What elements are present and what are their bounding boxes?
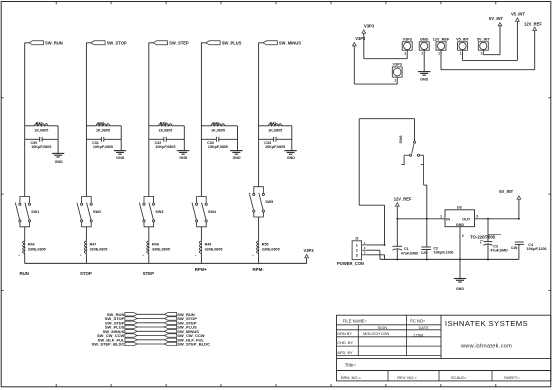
svg-text:10KpF,0805: 10KpF,0805 — [93, 145, 113, 149]
wire resistor to rail — [253, 254, 259, 264]
net label pair SW_HLF_FUL — [98, 337, 205, 342]
node STEP — [143, 271, 155, 276]
svg-text:R41: R41 — [270, 121, 277, 125]
power V3P3 top — [362, 24, 375, 34]
net label pair SW_MINUS — [103, 329, 200, 334]
connector J7 V3P3 lower — [392, 63, 402, 83]
svg-text:V3P3: V3P3 — [403, 38, 412, 42]
svg-text:PC NO=: PC NO= — [410, 318, 426, 323]
svg-text:STOP: STOP — [80, 271, 92, 276]
power 12V_REF top — [524, 22, 542, 31]
connector J1 POWER_CON — [337, 237, 367, 266]
svg-text:GND: GND — [456, 223, 465, 227]
svg-text:V3P3: V3P3 — [393, 63, 402, 67]
capacitor C4 10KpF,1206 — [515, 242, 547, 259]
svg-text:10KpF,0805: 10KpF,0805 — [31, 145, 51, 149]
wire GND pin — [423, 50, 425, 71]
svg-text:www.ishnatek.com: www.ishnatek.com — [460, 343, 512, 349]
connector J5 V5_INT — [456, 38, 470, 56]
svg-text:1: 1 — [460, 52, 462, 56]
capacitor C2 10KpF,1206 — [421, 219, 453, 260]
svg-text:V5_INT: V5_INT — [456, 38, 470, 42]
svg-text:5V_INT: 5V_INT — [499, 189, 513, 194]
svg-text:330E,0805: 330E,0805 — [262, 247, 280, 251]
svg-text:1K,0805: 1K,0805 — [34, 128, 48, 132]
svg-text:GND: GND — [233, 156, 241, 160]
capacitor C3 47uF,SMD — [480, 219, 518, 260]
wire J1 pin1 — [367, 244, 386, 246]
resistor R38 1K,0805 — [86, 121, 121, 132]
svg-text:IN: IN — [446, 217, 450, 221]
svg-text:1K,0805: 1K,0805 — [268, 128, 282, 132]
connector J6 5V_INT — [477, 38, 491, 56]
global label SW_RUN — [29, 40, 63, 45]
wire RC to GND — [291, 126, 293, 151]
wire SW6 to rail — [424, 185, 427, 219]
svg-text:3: 3 — [476, 214, 478, 218]
ground regulator — [454, 279, 466, 292]
svg-text:330E,0805: 330E,0805 — [152, 247, 170, 251]
title block — [337, 315, 551, 381]
connector J2 V3P3 — [402, 38, 412, 56]
svg-text:C2N: C2N — [421, 251, 428, 255]
svg-text:47uF,SMD: 47uF,SMD — [490, 248, 508, 252]
wire SW_RUN vertical — [25, 43, 29, 197]
wire J1 pin3 — [367, 255, 385, 260]
svg-text:OUT: OUT — [462, 217, 471, 221]
wire switch to resistor — [148, 227, 150, 241]
svg-text:RPM-: RPM- — [252, 267, 264, 272]
svg-text:R47: R47 — [90, 242, 97, 246]
svg-text:V3P3: V3P3 — [303, 248, 314, 253]
svg-text:330E,0805: 330E,0805 — [90, 247, 108, 251]
power V3P3 rail — [303, 248, 314, 264]
wire switch to resistor — [85, 227, 87, 241]
wire V5_INT to power — [463, 21, 518, 60]
wire SW_MINUS vertical — [259, 43, 263, 187]
resistor R49 330E,0805 — [199, 241, 222, 254]
svg-text:330E,0805: 330E,0805 — [205, 247, 223, 251]
svg-text:+: + — [480, 241, 482, 245]
svg-text:1K,0805: 1K,0805 — [158, 128, 172, 132]
resistor R37 1K,0805 — [25, 121, 58, 132]
switch SW6 — [399, 136, 424, 186]
svg-text:R39: R39 — [160, 121, 167, 125]
node RUN — [19, 271, 29, 276]
net label pair SW_CW_CCW — [97, 333, 205, 338]
node STOP — [80, 271, 92, 276]
svg-text:12V_REF: 12V_REF — [394, 197, 412, 202]
regulator U3 TO-220/7805 — [440, 204, 501, 239]
svg-text:R46: R46 — [28, 242, 35, 246]
wire resistor to rail — [195, 254, 201, 264]
svg-text:GND: GND — [116, 156, 124, 160]
svg-text:ISHNATEK SYSTEMS: ISHNATEK SYSTEMS — [445, 319, 528, 328]
svg-text:RPM+: RPM+ — [195, 267, 208, 272]
svg-text:SW3: SW3 — [155, 210, 163, 214]
svg-text:TO-220/7805: TO-220/7805 — [470, 235, 496, 240]
svg-text:10KpF,1206: 10KpF,1206 — [433, 250, 453, 254]
resistor R47 330E,0805 — [84, 241, 107, 254]
svg-text:DRN. NO.=: DRN. NO.= — [341, 375, 362, 380]
svg-text:C4N: C4N — [511, 246, 518, 250]
svg-text:5V_INT: 5V_INT — [477, 38, 491, 42]
net label pair SW_PLUS — [105, 325, 197, 330]
svg-text:10KpF,0805: 10KpF,0805 — [265, 145, 285, 149]
resistor R46 330E,0805 — [23, 241, 46, 254]
svg-text:1: 1 — [421, 52, 423, 56]
wire resistor to rail — [143, 254, 149, 264]
svg-text:DRN BY: DRN BY — [337, 331, 352, 336]
svg-text:1K,0805: 1K,0805 — [211, 128, 225, 132]
capacitor C30 10KpF,0805 — [25, 137, 58, 149]
wire V3P3 to power — [364, 33, 407, 58]
svg-text:V3P3: V3P3 — [364, 24, 375, 29]
svg-text:17f08: 17f08 — [413, 332, 424, 337]
capacitor C32 10KpF,0805 — [149, 137, 185, 149]
svg-text:10KpF,1206: 10KpF,1206 — [527, 247, 547, 251]
wire U3 GND — [459, 227, 461, 279]
wire bottom rail — [25, 262, 307, 264]
svg-text:1: 1 — [480, 52, 482, 56]
svg-text:SW2: SW2 — [93, 210, 101, 214]
svg-text:STEP: STEP — [143, 271, 155, 276]
svg-text:1K,0805: 1K,0805 — [96, 128, 110, 132]
svg-text:APD. BY: APD. BY — [337, 350, 353, 355]
resistor R48 330E,0805 — [147, 241, 170, 254]
wire SW6 loop — [359, 119, 414, 245]
svg-text:MOLOCH DSN: MOLOCH DSN — [363, 331, 390, 336]
svg-text:GND: GND — [456, 287, 464, 291]
svg-text:V5_INT: V5_INT — [511, 12, 525, 17]
svg-text:SW6: SW6 — [399, 136, 403, 144]
svg-text:12V_REF: 12V_REF — [433, 38, 450, 42]
ground — [230, 151, 242, 160]
svg-text:SCALE=: SCALE= — [451, 375, 467, 380]
svg-text:SW_RUN: SW_RUN — [45, 40, 63, 45]
svg-text:1: 1 — [404, 52, 406, 56]
svg-text:SHEET=: SHEET= — [504, 375, 520, 380]
svg-text:Title=: Title= — [345, 363, 357, 368]
svg-text:SW_STEP: SW_STEP — [169, 40, 189, 45]
net label pair SW_STEP_BLDC — [92, 342, 211, 347]
svg-text:330E,0805: 330E,0805 — [28, 247, 46, 251]
svg-text:R50: R50 — [262, 242, 269, 246]
wire resistor to rail — [19, 254, 25, 264]
resistor R39 1K,0805 — [149, 121, 185, 132]
svg-text:U3: U3 — [457, 204, 463, 209]
svg-text:2: 2 — [356, 249, 358, 253]
svg-text:J1: J1 — [355, 237, 359, 241]
capacitor C34 10KpF,0805 — [259, 137, 292, 149]
resistor R50 330E,0805 — [257, 241, 280, 254]
wire RC to GND — [120, 126, 122, 151]
switch SW2 — [77, 197, 101, 227]
switch SW4 — [192, 197, 217, 227]
svg-text:47uF,SMD: 47uF,SMD — [401, 252, 419, 256]
connector J3 GND — [419, 38, 429, 56]
svg-text:FILE NAME=: FILE NAME= — [343, 318, 368, 323]
svg-text:R48: R48 — [152, 242, 159, 246]
capacitor C33 10KpF,0805 — [201, 137, 237, 149]
ground — [52, 153, 64, 164]
wire input rail — [396, 218, 445, 220]
wire switch to resistor — [258, 217, 260, 241]
svg-text:10KpF,0805: 10KpF,0805 — [208, 145, 228, 149]
power 5V_INT — [499, 189, 521, 219]
svg-text:10KpF,0805: 10KpF,0805 — [155, 145, 175, 149]
svg-text:GND: GND — [179, 156, 187, 160]
power V3P3 left — [352, 36, 366, 46]
wire RC to GND — [183, 126, 185, 151]
svg-text:SW_STEP_BLDC: SW_STEP_BLDC — [177, 342, 210, 347]
svg-text:SW_MINUS: SW_MINUS — [279, 40, 301, 45]
svg-text:GND: GND — [420, 38, 429, 42]
svg-text:V3P3: V3P3 — [355, 36, 366, 41]
wire ground rail — [380, 258, 519, 260]
ground — [284, 151, 296, 160]
net label pair SW_STEP — [105, 320, 197, 325]
svg-text:1: 1 — [440, 214, 442, 218]
power 12V_REF — [394, 197, 412, 219]
wire V3P3 lower to power — [354, 46, 397, 84]
capacitor C1 47uF,SMD — [393, 219, 419, 260]
global label SW_MINUS — [263, 40, 301, 45]
connector J4 12V_REF — [433, 38, 450, 56]
resistor R40 1K,0805 — [201, 121, 237, 132]
svg-text:SW1: SW1 — [31, 210, 39, 214]
svg-text:R40: R40 — [212, 121, 219, 125]
power 5V_INT top — [489, 16, 503, 26]
wire 5V_INT to power — [483, 26, 500, 55]
wire SW_STOP vertical — [86, 43, 90, 197]
node RPM- — [252, 267, 264, 272]
svg-text:12V_REF: 12V_REF — [524, 22, 542, 27]
wire output rail — [475, 218, 520, 220]
wire 12V_REF to power — [441, 31, 535, 70]
svg-text:2: 2 — [462, 234, 464, 238]
switch SW5 — [249, 187, 273, 217]
global label SW_STEP — [153, 40, 189, 45]
net label pair SW_RUN — [107, 312, 195, 317]
svg-text:GND: GND — [55, 160, 63, 164]
wire SW_STEP vertical — [149, 43, 153, 197]
wire switch to resistor — [24, 227, 26, 241]
svg-text:REV. NO.=: REV. NO.= — [397, 375, 417, 380]
net label pair SW_STOP — [105, 316, 198, 321]
svg-text:SW_STEP_BLDC: SW_STEP_BLDC — [92, 342, 125, 347]
power V5_INT top — [511, 12, 525, 22]
global label SW_PLUS — [206, 40, 242, 45]
svg-text:CHD. BY: CHD. BY — [337, 340, 353, 345]
wire RC to GND — [237, 126, 239, 151]
node RPM+ — [195, 267, 208, 272]
svg-text:R38: R38 — [97, 121, 104, 125]
svg-text:SW_PLUS: SW_PLUS — [222, 40, 242, 45]
svg-text:3: 3 — [356, 254, 358, 258]
svg-text:POWER_CON: POWER_CON — [337, 261, 364, 266]
ground — [114, 151, 126, 160]
ground top — [418, 72, 430, 82]
svg-text:1: 1 — [356, 243, 358, 247]
svg-text:GND: GND — [420, 78, 428, 82]
svg-text:SW5: SW5 — [265, 200, 273, 204]
ground — [177, 151, 189, 160]
svg-text:1: 1 — [438, 52, 440, 56]
wire resistor to rail — [80, 254, 86, 264]
svg-text:C1: C1 — [404, 247, 409, 251]
svg-text:GND: GND — [287, 156, 295, 160]
resistor R41 1K,0805 — [259, 121, 292, 132]
svg-text:1: 1 — [394, 79, 396, 83]
svg-text:SW4: SW4 — [208, 210, 217, 214]
svg-text:DATE: DATE — [418, 325, 428, 330]
global label SW_STOP — [91, 40, 127, 45]
wire switch to resistor — [200, 227, 202, 241]
wire SW_PLUS vertical — [201, 43, 205, 197]
switch SW3 — [139, 197, 163, 227]
wire RC to GND — [57, 126, 59, 154]
svg-text:RUN: RUN — [19, 271, 29, 276]
capacitor C31 10KpF,0805 — [86, 137, 121, 149]
svg-text:R49: R49 — [205, 242, 212, 246]
switch SW1 — [15, 197, 39, 227]
svg-text:SIGN: SIGN — [378, 325, 388, 330]
svg-text:5V_INT: 5V_INT — [489, 16, 503, 21]
svg-text:R37: R37 — [36, 121, 43, 125]
wire J1 pin2 — [367, 250, 380, 259]
svg-text:SW_STOP: SW_STOP — [107, 40, 127, 45]
